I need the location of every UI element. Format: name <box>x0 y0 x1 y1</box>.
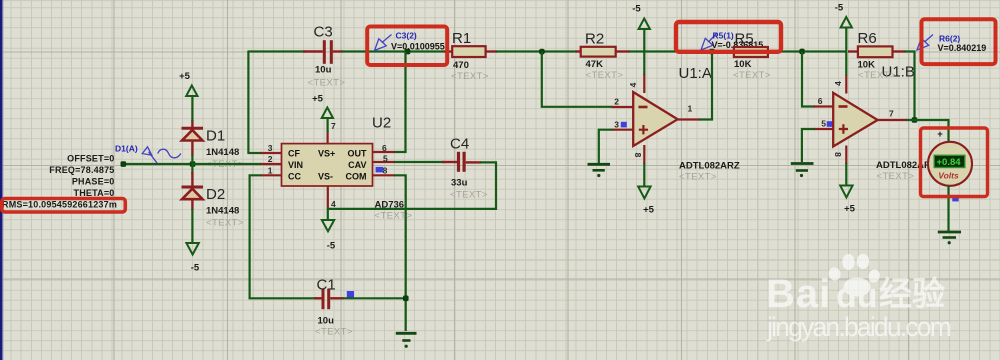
probe R6(2) <box>917 35 933 51</box>
svg-text:R6: R6 <box>858 30 877 47</box>
wire: U2 pin6 to OUT vertical <box>394 151 407 153</box>
node: U1:B output junction dot <box>912 117 918 123</box>
U1:A pin2 stub <box>612 106 633 108</box>
svg-text:U1:A: U1:A <box>679 65 712 82</box>
svg-text:+: + <box>937 129 943 140</box>
blue marker at U2 pin 8 <box>376 167 384 173</box>
ground (COM net) <box>396 333 417 348</box>
svg-text:5: 5 <box>821 119 826 129</box>
svg-text:33u: 33u <box>451 178 468 189</box>
power -5 above U1:A pin4 <box>632 4 650 76</box>
node: source output dot <box>121 161 127 167</box>
voltmeter VM1 <box>928 129 972 244</box>
svg-text:+5: +5 <box>844 204 856 215</box>
blue marker at U1:A pin3 <box>621 122 627 128</box>
svg-text:Volts: Volts <box>938 170 959 180</box>
svg-text:PHASE=0: PHASE=0 <box>72 176 115 186</box>
svg-text:<TEXT>: <TEXT> <box>315 327 353 338</box>
ground (voltmeter) <box>938 232 961 244</box>
power +5 above D1 <box>179 71 197 121</box>
svg-text:COM: COM <box>346 171 367 181</box>
node: R5/R6/U1:B pin6 junction dot <box>799 49 805 55</box>
U2 pin stubs right <box>373 152 396 175</box>
node: U1:A output junction dot <box>709 49 715 55</box>
svg-text:<TEXT>: <TEXT> <box>308 78 346 89</box>
U2 pin numbers right <box>382 143 388 175</box>
power -5 below D2 <box>186 209 200 274</box>
U1:B pin5 stub <box>814 128 833 130</box>
power +5 below U1:B pin8 <box>840 163 855 215</box>
wire: U2 pin5 (CAV) to C4 <box>394 161 444 163</box>
svg-text:6: 6 <box>382 143 387 153</box>
svg-text:+5: +5 <box>312 94 324 105</box>
red highlight box around R6(2) probe <box>922 19 996 64</box>
resistor R6 <box>804 46 906 57</box>
svg-text:CC: CC <box>288 171 301 181</box>
U1:A pin1 output stub <box>678 118 700 120</box>
wire: R2 to output node of U1:A <box>629 50 714 52</box>
svg-text:jingyan.baidu.com: jingyan.baidu.com <box>766 312 951 342</box>
capacitor C3 <box>303 40 343 64</box>
svg-text:D2: D2 <box>206 186 225 203</box>
svg-text:8: 8 <box>383 165 388 175</box>
svg-text:R5: R5 <box>735 31 754 48</box>
svg-text:470: 470 <box>453 60 469 71</box>
wire: R5 to U1:B input node <box>779 50 803 52</box>
svg-text:10u: 10u <box>318 316 335 327</box>
svg-text:-5: -5 <box>632 4 641 15</box>
svg-text:ADTL082ARZ: ADTL082ARZ <box>679 161 740 172</box>
power -5 below U2 pin4 <box>322 208 336 252</box>
svg-text:C4: C4 <box>450 136 469 153</box>
red highlight box around C3(2) probe <box>367 27 447 66</box>
svg-text:<TEXT>: <TEXT> <box>679 172 717 183</box>
resistor R1 <box>444 46 497 57</box>
svg-text:Bai: Bai <box>766 272 831 316</box>
svg-text:8: 8 <box>633 153 643 158</box>
svg-text:1N4148: 1N4148 <box>206 206 239 217</box>
node: R1/R2/feedback junction dot <box>539 49 545 55</box>
svg-text:FREQ=78.4875: FREQ=78.4875 <box>49 165 114 175</box>
svg-text:C3: C3 <box>314 24 333 41</box>
svg-text:2: 2 <box>614 97 619 107</box>
svg-text:47K: 47K <box>586 59 604 70</box>
window border left edge <box>0 0 2 360</box>
svg-text:-5: -5 <box>191 263 200 274</box>
U2 pin stubs left <box>261 153 282 175</box>
wire: R6 right down to U1:B output <box>905 52 915 121</box>
wire: voltmeter minus to ground <box>947 186 949 231</box>
wire: C1 right to COM vertical <box>343 297 407 299</box>
probe D1(A) <box>142 147 181 164</box>
capacitor C1 <box>314 289 344 310</box>
svg-text:OFFSET=0: OFFSET=0 <box>67 154 114 164</box>
svg-text:CF: CF <box>288 149 300 159</box>
node: C3/R1/U2-OUT junction dot <box>405 49 411 55</box>
wire: U2 pin1 (CC) down and to C1 <box>250 175 316 298</box>
U1:A pin3 stub <box>612 129 633 131</box>
wire: source output to diode node <box>123 163 193 165</box>
svg-text:-5: -5 <box>835 3 844 14</box>
svg-text:CAV: CAV <box>348 160 366 170</box>
probe C3(2) <box>375 35 392 51</box>
U1:B pin6 stub <box>814 105 833 107</box>
probe R5(1) <box>701 34 717 51</box>
red highlight box around RMS readout <box>2 199 126 213</box>
wire: R1 to R2 <box>496 50 577 52</box>
svg-text:RMS=10.0954592661237m: RMS=10.0954592661237m <box>2 200 117 210</box>
svg-text:10u: 10u <box>315 65 332 76</box>
node: C1/ground junction dot <box>403 296 409 302</box>
U1:B pin8 stub bottom <box>845 146 847 165</box>
node: diode junction dot <box>190 161 196 167</box>
wire: junction down to U1:B pin6 <box>802 52 815 107</box>
svg-text:+0.84: +0.84 <box>937 157 962 168</box>
svg-text:VIN: VIN <box>288 160 303 170</box>
svg-text:R5(1): R5(1) <box>713 31 734 41</box>
U1:A triangle body <box>633 92 677 146</box>
svg-text:8: 8 <box>833 152 843 157</box>
resistor R2 <box>576 47 630 57</box>
power +5 below U1:A pin8 <box>638 163 654 216</box>
wire: junction down to U2 pin6 (OUT) <box>404 52 406 153</box>
svg-text:4: 4 <box>628 82 638 87</box>
U1:B triangle body <box>833 93 877 147</box>
svg-text:C1: C1 <box>317 277 336 294</box>
svg-text:R1: R1 <box>452 30 471 47</box>
wire: U1:A output up to rail <box>699 52 712 120</box>
svg-text:6: 6 <box>818 96 823 106</box>
op-amp U1:A <box>612 74 700 164</box>
wire: U1:A pin3 to ground <box>599 130 613 163</box>
svg-text:THETA=0: THETA=0 <box>74 188 115 198</box>
svg-text:3: 3 <box>268 143 273 153</box>
svg-text:<TEXT>: <TEXT> <box>206 218 244 229</box>
svg-text:2: 2 <box>268 154 273 164</box>
U1:A pin8 stub bottom <box>643 145 645 164</box>
svg-text:U2: U2 <box>372 115 391 132</box>
red highlight box around voltmeter <box>921 128 988 197</box>
svg-text:VS+: VS+ <box>318 149 335 159</box>
power +5 above U2 pin7 <box>312 94 333 133</box>
wire: output to voltmeter <box>906 120 949 144</box>
wire: node to U2 pin2 (VIN) <box>193 163 261 165</box>
svg-text:10K: 10K <box>734 59 752 70</box>
wire: U1:B pin5 to ground <box>802 129 815 162</box>
svg-text:V=0.0100955: V=0.0100955 <box>391 42 445 52</box>
wire: C4 return loop (VS- rail) <box>328 162 496 209</box>
svg-text:<TEXT>: <TEXT> <box>858 70 896 81</box>
svg-text:1: 1 <box>688 104 693 114</box>
ground (U1:B pin5) <box>791 164 814 178</box>
U1:B pin7 output stub <box>878 119 907 121</box>
svg-text:5: 5 <box>383 153 388 163</box>
wire: C3 left vertical down to U2 pin3 <box>247 52 249 153</box>
generator V1 parameter text <box>2 154 117 210</box>
svg-text:<TEXT>: <TEXT> <box>450 190 488 201</box>
blue marker near C1 <box>347 291 354 298</box>
red highlight box around R5(1) probe <box>676 22 781 52</box>
svg-text:<TEXT>: <TEXT> <box>451 71 489 82</box>
svg-text:1N4148: 1N4148 <box>206 147 239 158</box>
ground (U1:A pin3) <box>588 164 611 177</box>
svg-text:4: 4 <box>331 199 336 209</box>
svg-text:7: 7 <box>331 121 336 131</box>
wire: top rail C3 segment <box>247 50 305 52</box>
U2 pin numbers left <box>268 143 273 175</box>
op-amp U1:B <box>814 75 907 165</box>
svg-text:1: 1 <box>268 165 273 175</box>
svg-text:R2: R2 <box>585 31 604 48</box>
chip U2 AD736 <box>261 121 407 209</box>
svg-text:<TEXT>: <TEXT> <box>733 70 771 81</box>
blue marker at voltmeter minus <box>952 195 958 201</box>
svg-text:VS-: VS- <box>318 171 333 181</box>
svg-text:7: 7 <box>889 109 894 119</box>
svg-text:<TEXT>: <TEXT> <box>586 70 624 81</box>
U2 pin 4 stub bottom <box>327 186 329 209</box>
paw icon <box>844 278 871 297</box>
svg-text:10K: 10K <box>858 60 876 71</box>
capacitor C4 <box>442 152 497 172</box>
wire: U2 pin8 (COM) down to ground <box>394 175 406 331</box>
wire: C3 to R1 <box>342 50 446 52</box>
svg-text:+5: +5 <box>643 205 655 216</box>
svg-text:-5: -5 <box>327 241 336 252</box>
U1:B pin4 stub top <box>845 75 847 94</box>
svg-text:+5: +5 <box>179 71 191 82</box>
svg-text:3: 3 <box>614 119 619 129</box>
svg-text:经验: 经验 <box>879 275 945 312</box>
resistor R5 <box>712 47 780 57</box>
wire: U2 pin3 horizontal <box>247 152 262 154</box>
U2 pin 7 stub top <box>327 131 329 144</box>
power -5 above U1:B pin4 <box>835 3 852 76</box>
blue marker at U1:B pin5 <box>827 121 833 127</box>
svg-text:<TEXT>: <TEXT> <box>877 171 915 182</box>
svg-text:C3(2): C3(2) <box>396 31 417 41</box>
diode D1 <box>182 120 204 164</box>
svg-text:D1: D1 <box>206 128 225 145</box>
diode D2 <box>182 164 204 210</box>
wire: junction down to U1:A pin2 <box>542 52 613 107</box>
svg-text:V=0.840219: V=0.840219 <box>938 43 987 53</box>
svg-text:D1(A): D1(A) <box>115 144 138 154</box>
U1:A pin4 stub top <box>643 74 645 93</box>
Baidu Jingyan watermark <box>766 254 951 342</box>
svg-text:4: 4 <box>833 81 843 86</box>
svg-text:OUT: OUT <box>348 149 368 159</box>
